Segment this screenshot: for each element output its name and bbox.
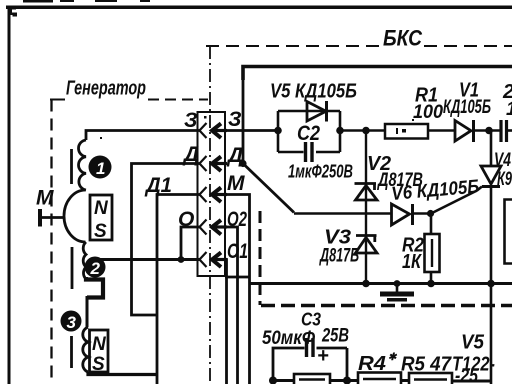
- svg-text:З: З: [228, 108, 242, 131]
- svg-text:V5 КД105Б: V5 КД105Б: [270, 81, 357, 103]
- svg-text:Д: Д: [182, 143, 199, 166]
- svg-text:100: 100: [413, 102, 443, 123]
- svg-text:З: З: [184, 109, 198, 132]
- svg-text:R5 47: R5 47: [401, 354, 452, 376]
- svg-text:Д: Д: [226, 144, 243, 167]
- svg-text:М: М: [227, 172, 245, 195]
- svg-text:Д1: Д1: [144, 174, 172, 197]
- svg-text:1мкФ250В: 1мкФ250В: [288, 162, 353, 182]
- svg-text:Генератор: Генератор: [66, 78, 146, 100]
- svg-text:V5: V5: [461, 332, 485, 354]
- svg-text:К9: К9: [497, 169, 512, 190]
- svg-text:N: N: [94, 198, 109, 219]
- svg-text:N: N: [92, 334, 107, 355]
- svg-text:1К: 1К: [402, 251, 422, 273]
- svg-text:С2: С2: [297, 122, 320, 145]
- svg-text:S: S: [94, 221, 107, 242]
- svg-text:С3: С3: [301, 310, 321, 330]
- svg-text:Д817Б: Д817Б: [319, 246, 359, 267]
- svg-text:25В: 25В: [321, 326, 349, 347]
- svg-text:50мкФ: 50мкФ: [262, 328, 315, 349]
- svg-text:-25: -25: [455, 366, 478, 384]
- svg-text:R4: R4: [358, 353, 386, 375]
- svg-text:О1: О1: [227, 240, 248, 263]
- svg-text:3: 3: [67, 313, 77, 332]
- svg-text:О2: О2: [227, 208, 247, 231]
- svg-text:V4: V4: [494, 150, 511, 171]
- svg-text:2: 2: [90, 259, 101, 278]
- svg-text:1: 1: [506, 99, 512, 120]
- svg-text:М: М: [36, 187, 54, 210]
- svg-text:КД105Б: КД105Б: [443, 97, 491, 118]
- svg-text:S: S: [92, 354, 105, 375]
- svg-text:+: +: [317, 345, 329, 367]
- svg-text:БКС: БКС: [383, 26, 423, 51]
- svg-text:О: О: [178, 208, 194, 231]
- svg-text:1: 1: [96, 159, 105, 178]
